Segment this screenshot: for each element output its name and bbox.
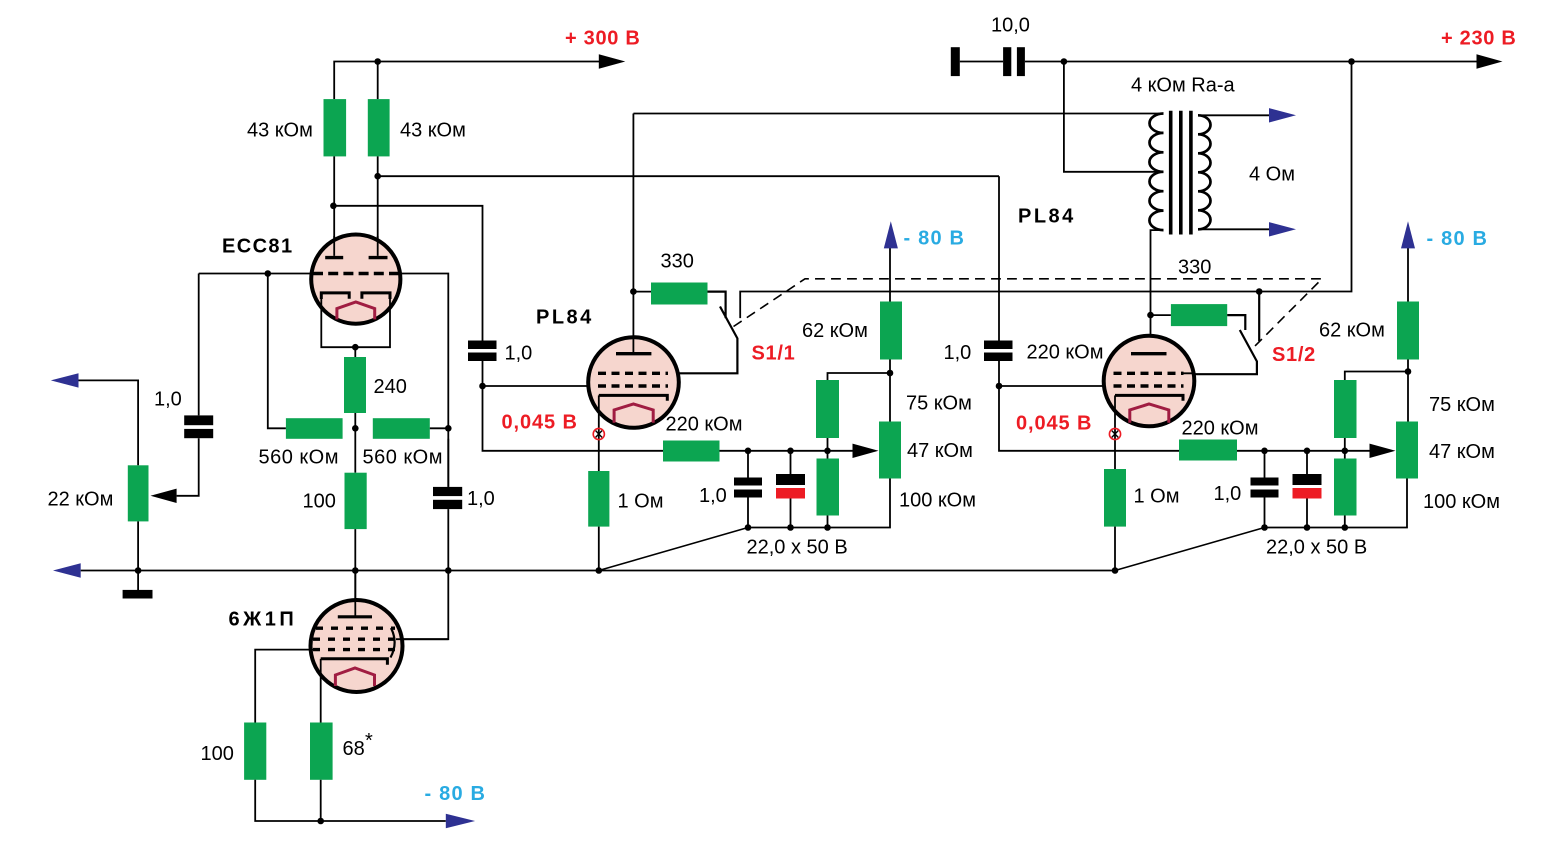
ECC81 right anode plate — [369, 256, 388, 259]
svg-text:1,0: 1,0 — [944, 342, 972, 364]
wire cap to grid node right — [998, 361, 1000, 386]
test point X circle left — [593, 428, 604, 439]
wire 43k right bottom to ECC81 right anode — [377, 156, 379, 256]
node cap 1,0 top right — [1261, 448, 1268, 455]
tube 6Zh1P envelope — [311, 600, 403, 692]
svg-text:220 кОм: 220 кОм — [1027, 342, 1104, 364]
node screen line to contact B right — [1256, 288, 1263, 295]
wire secondary bottom out — [1198, 228, 1269, 230]
tube PL84 right envelope — [1104, 336, 1195, 427]
6Zh1P grid 2 (dashed) — [313, 638, 395, 641]
wire grid-left down to 560k left — [268, 274, 286, 429]
PL84-right g1 (dashed) — [1114, 384, 1184, 387]
wire 220k to divider right — [1237, 450, 1370, 452]
node cathode join — [352, 344, 359, 351]
capacitor 1,0 (input) plate bottom — [184, 429, 213, 438]
node 62k bottom right — [1405, 368, 1412, 375]
svg-text:100 кОм: 100 кОм — [1423, 491, 1500, 513]
wire 6Zh1P g1 exit left — [255, 650, 316, 723]
svg-text:- 80 В: - 80 В — [1427, 228, 1489, 250]
arrow secondary bottom — [1269, 222, 1296, 236]
resistor 330 left — [651, 283, 708, 305]
arrow +300V — [599, 54, 626, 68]
node cathode on ground rail right — [1112, 567, 1119, 574]
6Zh1P grid 3 (dashed) — [316, 627, 395, 630]
svg-text:S1/1: S1/1 — [752, 343, 796, 365]
node cap 1,0 top left — [745, 448, 752, 455]
wire 220k to divider — [720, 450, 853, 452]
wire center tap — [1064, 62, 1164, 172]
resistor 100 (ECC81 tail) — [345, 473, 367, 529]
wire primary bottom to PL84-right anode — [1151, 230, 1164, 352]
wire grid node down to 220k — [483, 386, 664, 451]
svg-text:68: 68 — [343, 738, 365, 760]
resistor 43 kOhm left — [324, 99, 347, 156]
node 75k/100k junction left — [824, 448, 831, 455]
wire right anode to PL84-right grid cap (long line y=176) — [378, 175, 999, 177]
resistor 62 kOhm left — [880, 302, 902, 360]
resistor 47 kOhm right — [1396, 422, 1418, 479]
svg-text:0,045 В: 0,045 В — [1016, 413, 1092, 435]
wire g2 exit to switch right — [1184, 372, 1195, 375]
node right anode branch — [374, 173, 381, 180]
6Zh1P anode plate — [338, 615, 372, 618]
capacitor electrolytic 22,0x50V left plates — [776, 474, 805, 485]
wire 240 bottom through 560k junction to 100 top — [354, 413, 356, 473]
node cathode on ground rail left — [596, 567, 603, 574]
wire ECC81 grid right exit to x=448 column — [399, 274, 448, 487]
ECC81 anode leads (inside envelope) — [334, 236, 378, 256]
node 560k center junction — [352, 425, 359, 432]
PL84-left anode lead — [632, 114, 634, 353]
wire cathode join to 240 — [354, 347, 356, 357]
PL84-right cathode lead — [1114, 395, 1116, 469]
resistor 560 kOhm right — [373, 418, 430, 439]
transformer primary winding — [1149, 114, 1163, 231]
capacitor 1,0 (input, x=198.7) plate top — [184, 415, 213, 425]
svg-text:PL84: PL84 — [536, 307, 594, 329]
PL84-right anode plate — [1131, 352, 1167, 355]
wire +300V rail — [334, 62, 599, 100]
node 100k bottom left — [824, 524, 831, 531]
capacitor 1,0 (cathode, right) plates — [1251, 478, 1279, 486]
svg-text:75 кОм: 75 кОм — [1429, 394, 1495, 416]
capacitor 1,0 (cathode, left) plates — [734, 478, 762, 486]
node elec cap top right — [1304, 448, 1311, 455]
wire 43k right top lead — [377, 62, 379, 100]
PL84-right heater — [1130, 404, 1169, 423]
node PL84-right grid — [996, 383, 1003, 390]
svg-text:75 кОм: 75 кОм — [906, 393, 972, 415]
capacitor 1,0 (x=448) plate bottom — [433, 500, 462, 509]
resistor 240 — [344, 357, 366, 413]
wire ECC81 grid left exit — [199, 273, 312, 275]
wire -80V bottom rail — [255, 780, 446, 821]
capacitor 10,0 plates — [1003, 47, 1011, 76]
ECC81 right cathode — [362, 293, 390, 299]
node cap 1,0 bottom right — [1261, 524, 1268, 531]
svg-text:10,0: 10,0 — [991, 15, 1030, 37]
svg-text:22,0 x 50 В: 22,0 x 50 В — [1266, 537, 1367, 559]
PL84-left cathode — [599, 395, 668, 400]
wire diagonal to cathode node right — [1115, 528, 1265, 571]
resistor 220 kOhm left (grid leak) — [663, 441, 720, 462]
arrow divider wiper right — [1370, 444, 1396, 458]
svg-text:560 кОм: 560 кОм — [363, 447, 443, 469]
resistor 47 kOhm left — [879, 422, 901, 479]
svg-text:100 кОм: 100 кОм — [899, 490, 976, 512]
wire 68 bottom — [320, 780, 322, 821]
wire bottom rail of divider left — [748, 479, 890, 528]
arrow -80V (bottom) — [446, 814, 475, 828]
resistor 75 kOhm left — [816, 380, 839, 438]
switch S1/1 blade — [679, 307, 737, 374]
svg-text:1 Ом: 1 Ом — [1134, 486, 1180, 508]
wire ground rail — [81, 570, 1115, 572]
node ECC81 tail on ground rail — [352, 567, 359, 574]
resistor 62 kOhm right — [1397, 302, 1419, 360]
dashed link S1/1 — [734, 279, 1323, 349]
ECC81 grid (dashed) — [313, 272, 399, 275]
resistor 1 Ohm right — [1104, 469, 1126, 527]
wire cap 1,0 leads left — [747, 451, 749, 528]
node left anode branch — [330, 203, 337, 210]
wire 75k-100k column left — [827, 438, 829, 459]
resistor 43 kOhm right — [368, 99, 390, 156]
node PL84-left anode / 330 branch — [630, 288, 637, 295]
node 62k bottom left — [887, 370, 894, 377]
wire bottom rail of divider right — [1265, 479, 1408, 528]
ground symbol — [123, 590, 153, 599]
resistor 75 kOhm right — [1334, 380, 1357, 438]
resistor 330 right — [1171, 304, 1227, 326]
svg-text:S1/2: S1/2 — [1272, 344, 1316, 366]
wire grid-left line down to cap — [198, 274, 200, 416]
wire 62k top to -80V arrow right — [1407, 248, 1409, 302]
wire pot bottom to ground line — [137, 521, 139, 590]
svg-text:220 кОм: 220 кОм — [1182, 418, 1259, 440]
wire grid node to tube right — [999, 385, 1105, 387]
arrow pot wiper (22k) — [151, 489, 177, 503]
svg-text:100: 100 — [201, 743, 234, 765]
wire cap to grid node — [482, 361, 484, 386]
node center-tap drop — [1061, 58, 1068, 65]
svg-text:47 кОм: 47 кОм — [907, 440, 973, 462]
svg-text:330: 330 — [1178, 257, 1211, 279]
svg-text:220 кОм: 220 кОм — [666, 414, 743, 436]
ECC81 left cathode — [321, 293, 349, 299]
wire diagonal to cathode node left — [599, 528, 748, 571]
node cap 1,0 bottom left — [745, 524, 752, 531]
svg-text:+ 300 В: + 300 В — [565, 28, 641, 50]
wire 62k bottom to 75k top left — [828, 373, 891, 380]
svg-text:1,0: 1,0 — [699, 485, 727, 507]
PL84-right cathode — [1115, 395, 1183, 400]
arrow +230V — [1477, 54, 1503, 68]
resistor 220 kOhm right (grid leak) — [1179, 440, 1237, 461]
svg-text:6Ж1П: 6Ж1П — [229, 609, 298, 631]
capacitor 1,0 (PL84-left grid) plate top — [468, 341, 497, 350]
svg-text:4 Ом: 4 Ом — [1249, 164, 1295, 186]
PL84-left g1 (dashed) — [598, 384, 668, 387]
resistor 100 kOhm left — [817, 459, 840, 516]
wire 1 Ohm bottom to ground rail — [598, 527, 600, 571]
6Zh1P cathode — [321, 659, 388, 665]
svg-text:62 кОм: 62 кОм — [802, 320, 868, 342]
svg-text:22 кОм: 22 кОм — [48, 489, 114, 511]
wire 62k to 47k column right — [1407, 360, 1409, 422]
node 68 bottom on rail — [317, 818, 324, 825]
svg-text:1,0: 1,0 — [505, 343, 533, 365]
PL84-left anode plate — [616, 352, 651, 355]
svg-text:1,0: 1,0 — [467, 488, 495, 510]
6Zh1P heater — [335, 668, 374, 686]
wire 62k top to -80V arrow left — [889, 248, 891, 302]
wire elec cap leads right — [1306, 451, 1308, 528]
transformer secondary winding — [1198, 115, 1211, 229]
wire 43k left bottom to ECC81 left anode — [333, 156, 335, 256]
tube ECC81 envelope — [311, 235, 400, 324]
svg-text:43 кОм: 43 кОм — [400, 120, 466, 142]
svg-text:100: 100 — [303, 491, 336, 513]
wire +230V rail — [1025, 61, 1477, 63]
wire right grid feed down from y=176 line — [998, 176, 1000, 340]
tube PL84 left envelope — [588, 337, 679, 428]
arrow divider wiper left — [853, 444, 879, 458]
switch S1/2 blade — [1194, 330, 1257, 374]
wire 6Zh1P cathode lead — [320, 659, 322, 723]
ECC81 left anode plate — [325, 256, 343, 259]
node pot bottom on ground line — [135, 567, 142, 574]
node elec cap bottom left — [787, 524, 794, 531]
node PL84-right anode / 330 branch — [1147, 312, 1154, 319]
arrow secondary top — [1269, 108, 1296, 122]
wire 100k bottom left — [827, 516, 829, 528]
wire 62k bottom to 75k top right — [1345, 372, 1408, 381]
svg-text:1,0: 1,0 — [1214, 483, 1242, 505]
wire anode to 330 — [633, 291, 651, 293]
wire grid node down to 220k right — [999, 386, 1179, 451]
resistor 100 kOhm right — [1334, 459, 1357, 516]
wire ECC81 left cathode lead — [321, 296, 390, 347]
arrow ground rail (left, bottom) — [53, 563, 81, 577]
6Zh1P grid 1 (dashed) — [313, 648, 395, 651]
wire switch contact B to screen supply line — [740, 62, 1351, 319]
resistor 1 Ohm left — [588, 471, 609, 527]
svg-text:+ 230 В: + 230 В — [1441, 28, 1517, 50]
resistor 100 (6Zh1P grid) — [244, 723, 266, 780]
wire PL84-left anode to primary top — [633, 113, 1163, 115]
wire 100k bottom right — [1344, 516, 1346, 528]
node screen supply on +230V — [1348, 58, 1355, 65]
svg-text:0,045 В: 0,045 В — [502, 412, 578, 434]
svg-text:43 кОм: 43 кОм — [247, 120, 313, 142]
node grid-left to 560k — [265, 270, 272, 277]
wire 6Zh1P g2 exit right to x=448 column — [396, 638, 448, 640]
svg-text:1 Ом: 1 Ом — [618, 491, 664, 513]
wire cap 1,0 leads right — [1264, 451, 1266, 528]
svg-text:ECC81: ECC81 — [222, 236, 293, 258]
wire 75k-100k column right — [1344, 438, 1346, 459]
node elec cap top left — [787, 448, 794, 455]
arrow input (left, top) — [51, 373, 79, 387]
test point X circle right — [1109, 428, 1120, 439]
wire left anode to PL84-left grid cap (down at x=482.5) — [333, 206, 482, 341]
svg-text:47 кОм: 47 кОм — [1429, 441, 1495, 463]
capacitor electrolytic 22,0x50V right plates — [1293, 474, 1322, 485]
wire 10,0 — [960, 61, 1003, 63]
svg-text:4 кОм Ra-a: 4 кОм Ra-a — [1131, 75, 1236, 97]
wire 100 bottom to ground line and 6Zh1P anode — [354, 529, 356, 600]
svg-text:62 кОм: 62 кОм — [1319, 320, 1385, 342]
wire 1 Ohm bottom to ground rail right — [1114, 527, 1116, 571]
capacitor 1,0 (PL84-right grid) plates — [984, 341, 1013, 350]
wire elec cap leads left — [790, 451, 792, 528]
resistor 560 kOhm left — [286, 418, 343, 439]
capacitor 1,0 (x=448) plate top — [433, 487, 462, 496]
node 75k/100k junction right — [1342, 448, 1349, 455]
resistor potentiometer 22 kOhm — [128, 465, 149, 521]
svg-text:- 80 В: - 80 В — [425, 783, 487, 805]
PL84-left cathode lead — [598, 395, 600, 471]
arrow -80V up left — [884, 221, 898, 248]
capacitor 10,0 input plate — [951, 47, 960, 76]
wire input arrow to pot top — [79, 380, 139, 465]
svg-text:*: * — [365, 730, 373, 752]
node +300V junction (right 43k top) — [374, 58, 381, 65]
node 100k bottom right — [1342, 524, 1349, 531]
PL84-left g2 (dashed) — [598, 372, 668, 375]
svg-text:PL84: PL84 — [1018, 206, 1076, 228]
wire grid node to tube — [483, 385, 591, 387]
wire cap bottom to pot wiper — [177, 438, 199, 496]
wire secondary top out — [1198, 114, 1269, 116]
svg-text:1,0: 1,0 — [154, 389, 182, 411]
svg-text:560 кОм: 560 кОм — [259, 447, 339, 469]
svg-text:240: 240 — [374, 376, 407, 398]
capacitor 1,0 (PL84-left grid) plate bottom — [468, 353, 497, 362]
PL84-left heater — [614, 404, 653, 423]
node PL84-left grid — [479, 383, 486, 390]
6Zh1P anode lead — [354, 571, 356, 617]
6Zh1P g3-cathode internal arc — [391, 628, 395, 658]
wire x=448 column mid — [396, 439, 448, 639]
resistor 68* — [310, 723, 333, 780]
node 560k right junction — [445, 425, 452, 432]
wire anode to 330 right — [1151, 314, 1171, 316]
wire 62k to 47k column left — [889, 360, 891, 422]
arrow -80V up right — [1401, 221, 1415, 248]
node elec cap bottom right — [1304, 524, 1311, 531]
wire 560k right to x=448 — [430, 427, 449, 429]
ECC81 heater — [337, 302, 375, 319]
wire 330 to switch contact A right — [1227, 315, 1245, 330]
svg-text:- 80 В: - 80 В — [904, 228, 966, 250]
wire switch contact B right — [1258, 292, 1260, 342]
svg-text:330: 330 — [661, 251, 694, 273]
svg-text:22,0 x 50 В: 22,0 x 50 В — [747, 537, 848, 559]
transformer core — [1171, 111, 1191, 235]
node x=448 column on ground rail — [445, 567, 452, 574]
wire 330 to switch contact A — [708, 292, 726, 319]
PL84-right g2 (dashed) — [1114, 372, 1184, 375]
